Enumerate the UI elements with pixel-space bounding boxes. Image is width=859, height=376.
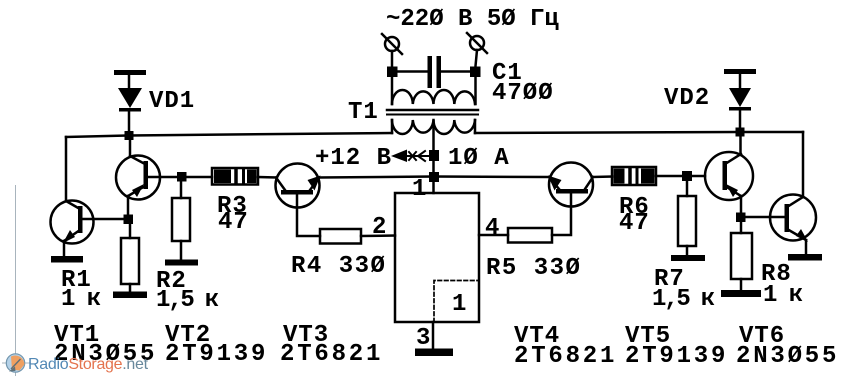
watermark logo icon: [6, 354, 24, 372]
diode VD1: [114, 70, 146, 136]
wire VT3 base drop to R4: [297, 194, 320, 236]
wire VT4 collector to R6: [593, 175, 612, 178]
transistor VT1: [51, 201, 94, 257]
wire VT5 collector riser: [739, 132, 742, 154]
ground R2: [165, 260, 198, 266]
terminal output right: [467, 33, 487, 104]
wire VT3 emitter to +12 node: [319, 177, 434, 178]
svg-text:2Т9139: 2Т9139: [625, 343, 728, 370]
wire +12 node to VT4: [434, 175, 550, 178]
wire VT4 base drop to R5: [552, 193, 571, 235]
resistor R1: [121, 219, 139, 292]
ground VT6 emitter: [788, 254, 822, 261]
resistor R3: [212, 168, 258, 185]
svg-text:47: 47: [619, 210, 650, 237]
ground VT1 emitter: [51, 256, 83, 263]
ground R8: [721, 290, 761, 297]
wire right rail from transformer right end through VD2 node to VT6 corner: [475, 132, 803, 133]
node C1 left junction: [387, 67, 398, 78]
transistor VT3: [276, 164, 321, 208]
block oscillator unit: [395, 193, 479, 322]
svg-text:1,5 к: 1,5 к: [652, 286, 715, 313]
resistor R5: [479, 228, 552, 243]
svg-text:3: 3: [416, 325, 431, 352]
svg-text:VD1: VD1: [149, 88, 195, 115]
svg-text:1,5 к: 1,5 к: [156, 287, 219, 314]
node VT6 base junction: [736, 213, 746, 223]
svg-text:Т1: Т1: [348, 99, 379, 126]
wire VT2 base to R3: [148, 176, 212, 179]
transistor VT5: [705, 152, 753, 200]
resistor R4: [320, 229, 395, 244]
diode VD2: [724, 69, 756, 132]
svg-text:47ØØ: 47ØØ: [492, 80, 554, 107]
svg-text:1: 1: [452, 291, 467, 318]
svg-text:2Т9139: 2Т9139: [165, 341, 268, 368]
node VD1 junction: [125, 131, 134, 140]
wire VT6 collector riser: [802, 132, 805, 197]
capacitor C1: [392, 56, 475, 88]
ground R1: [113, 292, 147, 299]
transformer T1: [387, 90, 478, 134]
resistor R7: [678, 181, 696, 255]
node VD2 junction: [736, 128, 745, 137]
node VT1 base junction: [124, 215, 134, 225]
dashed inner module: [434, 281, 479, 323]
resistor R8: [731, 222, 752, 291]
svg-text:1 к: 1 к: [763, 282, 803, 309]
svg-text:R4 33Ø: R4 33Ø: [291, 253, 386, 280]
svg-text:VD2: VD2: [664, 85, 710, 112]
ground R7: [671, 255, 705, 261]
svg-text:+12 В: +12 В: [315, 145, 392, 172]
transistor VT4: [548, 163, 593, 207]
node +12V junction: [429, 150, 439, 161]
transistor VT6: [770, 195, 816, 255]
svg-text:2N3Ø55: 2N3Ø55: [736, 343, 839, 370]
wire VT5 emitter drop: [740, 196, 743, 217]
node R2 top junction: [177, 172, 187, 182]
svg-text:1Ø А: 1Ø А: [448, 145, 510, 172]
svg-text:2Т6821: 2Т6821: [280, 341, 383, 368]
wire VT1 base: [82, 218, 128, 221]
wire R6 to VT5 base: [656, 175, 705, 178]
svg-text:47: 47: [218, 209, 249, 236]
watermark crosshair horizontal: [2, 362, 31, 364]
wire block pin 3: [432, 322, 435, 349]
svg-text:4: 4: [485, 215, 500, 242]
resistor R6: [612, 167, 656, 185]
wire VT2 emitter drop: [127, 196, 130, 219]
node driver rail junction: [429, 172, 439, 182]
node R7 top junction: [682, 171, 692, 181]
wire left rail from VT1 collector corner to transformer left end: [66, 133, 392, 137]
svg-text:1 к: 1 к: [61, 286, 101, 313]
svg-text:R5 33Ø: R5 33Ø: [486, 255, 581, 282]
wire VT1 collector riser: [65, 137, 68, 201]
svg-text:~22Ø В 5Ø Гц: ~22Ø В 5Ø Гц: [386, 6, 559, 33]
transistor VT2: [116, 156, 160, 200]
power arrow +12V: [391, 150, 430, 163]
wire center tap to block pin 1: [432, 120, 435, 193]
watermark crosshair vertical: [15, 185, 17, 376]
node C1 right junction: [470, 67, 481, 78]
svg-text:2: 2: [372, 214, 387, 241]
terminal output left: [382, 34, 402, 104]
wire R3 to VT3: [258, 176, 276, 179]
svg-text:2Т6821: 2Т6821: [514, 343, 617, 370]
svg-text:RadioStorage.net: RadioStorage.net: [28, 356, 149, 373]
ground block pin 3: [415, 349, 453, 357]
wire VT6 base: [741, 216, 784, 219]
resistor R2: [172, 181, 190, 260]
wire VT2 collector riser: [129, 136, 132, 156]
svg-text:1: 1: [412, 176, 427, 203]
